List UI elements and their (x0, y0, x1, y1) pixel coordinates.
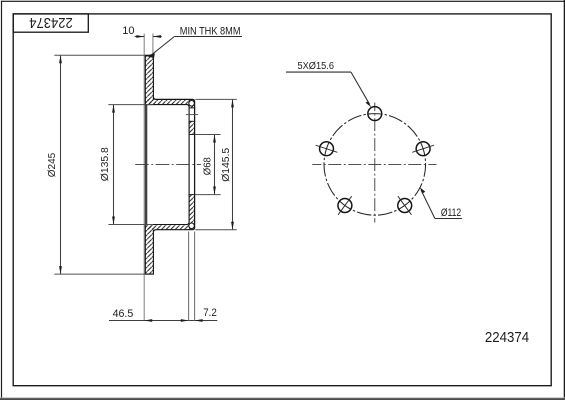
svg-text:MIN THK 8MM: MIN THK 8MM (180, 25, 241, 37)
disc left face upper (144, 55, 146, 104)
outer border frame left (1, 1, 2, 399)
fillet circle bottom (189, 223, 195, 229)
bolt hole axis tick top (186, 114, 198, 116)
dim 46.5 arrows (144, 319, 152, 322)
dim 145.5 arrows (231, 99, 234, 107)
hub inner face (188, 106, 190, 223)
centerline left view (135, 164, 201, 166)
svg-text:224374: 224374 (485, 329, 529, 346)
disc right face lower (152, 230, 154, 274)
dim 135.8 line (113, 105, 115, 225)
dim 46.5 / 7.2 baseline (109, 320, 217, 322)
dim 245 ext top (54, 54, 145, 56)
dim 68 line (214, 135, 216, 195)
dimension 10 line right + arrow (153, 36, 162, 38)
bolt hole lower-left (338, 199, 352, 213)
fillet circle top (189, 101, 195, 107)
label 5X15.6 leader (351, 72, 370, 104)
MIN THK leader arrow (145, 53, 155, 58)
hatch hat flange bottom (145, 225, 194, 230)
svg-text:5XØ15.6: 5XØ15.6 (298, 61, 335, 72)
radial slash lower-left hole (338, 196, 352, 215)
bore edge lines in hub wall (189, 134, 196, 136)
dim 145.5 ext bottom (195, 229, 237, 231)
dim 245 line (60, 55, 62, 274)
svg-text:Ø68: Ø68 (202, 157, 214, 175)
hat middle contour band (145, 105, 148, 225)
dim 68 arrows (213, 135, 216, 143)
extension line grey right of disc (10-dim) (152, 34, 154, 56)
bolt hole upper-left (320, 142, 334, 156)
dim 135.8 arrows (112, 105, 115, 113)
disc bottom edge (145, 273, 154, 275)
radial slash upper-left hole (316, 145, 338, 152)
disc right face upper (152, 55, 154, 99)
dim 145.5 ext top (195, 98, 237, 100)
disc top edge (145, 54, 154, 56)
hat flange bottom inner surface / ring inner edge (145, 222, 189, 224)
svg-text:7.2: 7.2 (203, 307, 217, 319)
MIN THK leader diagonal (152, 37, 175, 55)
radial slash lower-right hole (398, 196, 412, 215)
hub right face (194, 101, 196, 228)
dim 68 ext top (195, 134, 221, 136)
outer border frame bottom band (0, 396, 565, 399)
dim 68 ext bottom (195, 194, 221, 196)
dim 135.8 ext bottom (108, 224, 153, 226)
svg-text:10: 10 (122, 25, 134, 37)
dim 245 ext bottom (54, 273, 145, 275)
hatch hat flange top (145, 99, 194, 104)
bolt circle dashed (324, 114, 426, 216)
horizontal centerline (312, 163, 436, 165)
svg-text:46.5: 46.5 (113, 308, 134, 320)
label 112 arrow (419, 187, 425, 193)
hatch hub wall segment 2 (189, 121, 195, 134)
disc left face lower (144, 225, 146, 275)
title box top-left (13, 14, 88, 32)
dim 145.5 line (232, 99, 234, 229)
hatch disc ring lower (145, 225, 153, 275)
ext 7.2 right (194, 232, 196, 321)
dim 7.2 arrow (195, 319, 203, 322)
bolt hole top (368, 107, 382, 121)
dim 245 arrows (59, 55, 62, 63)
extension line grey long left (10-dim / 46.5-dim) (143, 34, 145, 321)
ext 46.5 right / 7.2 left (188, 232, 190, 321)
MIN THK leader underline (174, 36, 242, 38)
label 5X15.6 underline (286, 71, 351, 73)
vertical centerline (374, 103, 376, 223)
outer border frame right (564, 0, 565, 400)
bolt hole upper-right (416, 142, 430, 156)
label 112 leader (421, 190, 435, 219)
hatch hub wall lower block (189, 195, 195, 230)
hat outline top (flange top surface + hub corner) (153, 97, 194, 102)
hat outline bottom (hub corner + flange bottom surface) (153, 227, 194, 232)
dim 135.8 ext top (108, 104, 153, 106)
hat flange top underside / ring inner edge (145, 105, 189, 107)
bolt hole edge lines in hub wall (189, 107, 196, 109)
svg-text:Ø245: Ø245 (46, 153, 58, 178)
radial slash upper-right hole (412, 145, 434, 152)
svg-text:224374: 224374 (29, 14, 73, 31)
label 5X15.6 arrow (366, 101, 372, 107)
outer border frame top (1, 1, 565, 2)
label 112 underline (435, 218, 462, 220)
svg-text:Ø135.8: Ø135.8 (99, 147, 111, 181)
hatch hub wall segment 1 (189, 99, 195, 108)
svg-text:Ø145.5: Ø145.5 (220, 148, 232, 182)
hatch disc ring upper (145, 55, 153, 104)
bolt hole lower-right (398, 199, 412, 213)
svg-text:Ø112: Ø112 (441, 207, 461, 219)
dimension 10 line left + arrow (135, 36, 145, 38)
